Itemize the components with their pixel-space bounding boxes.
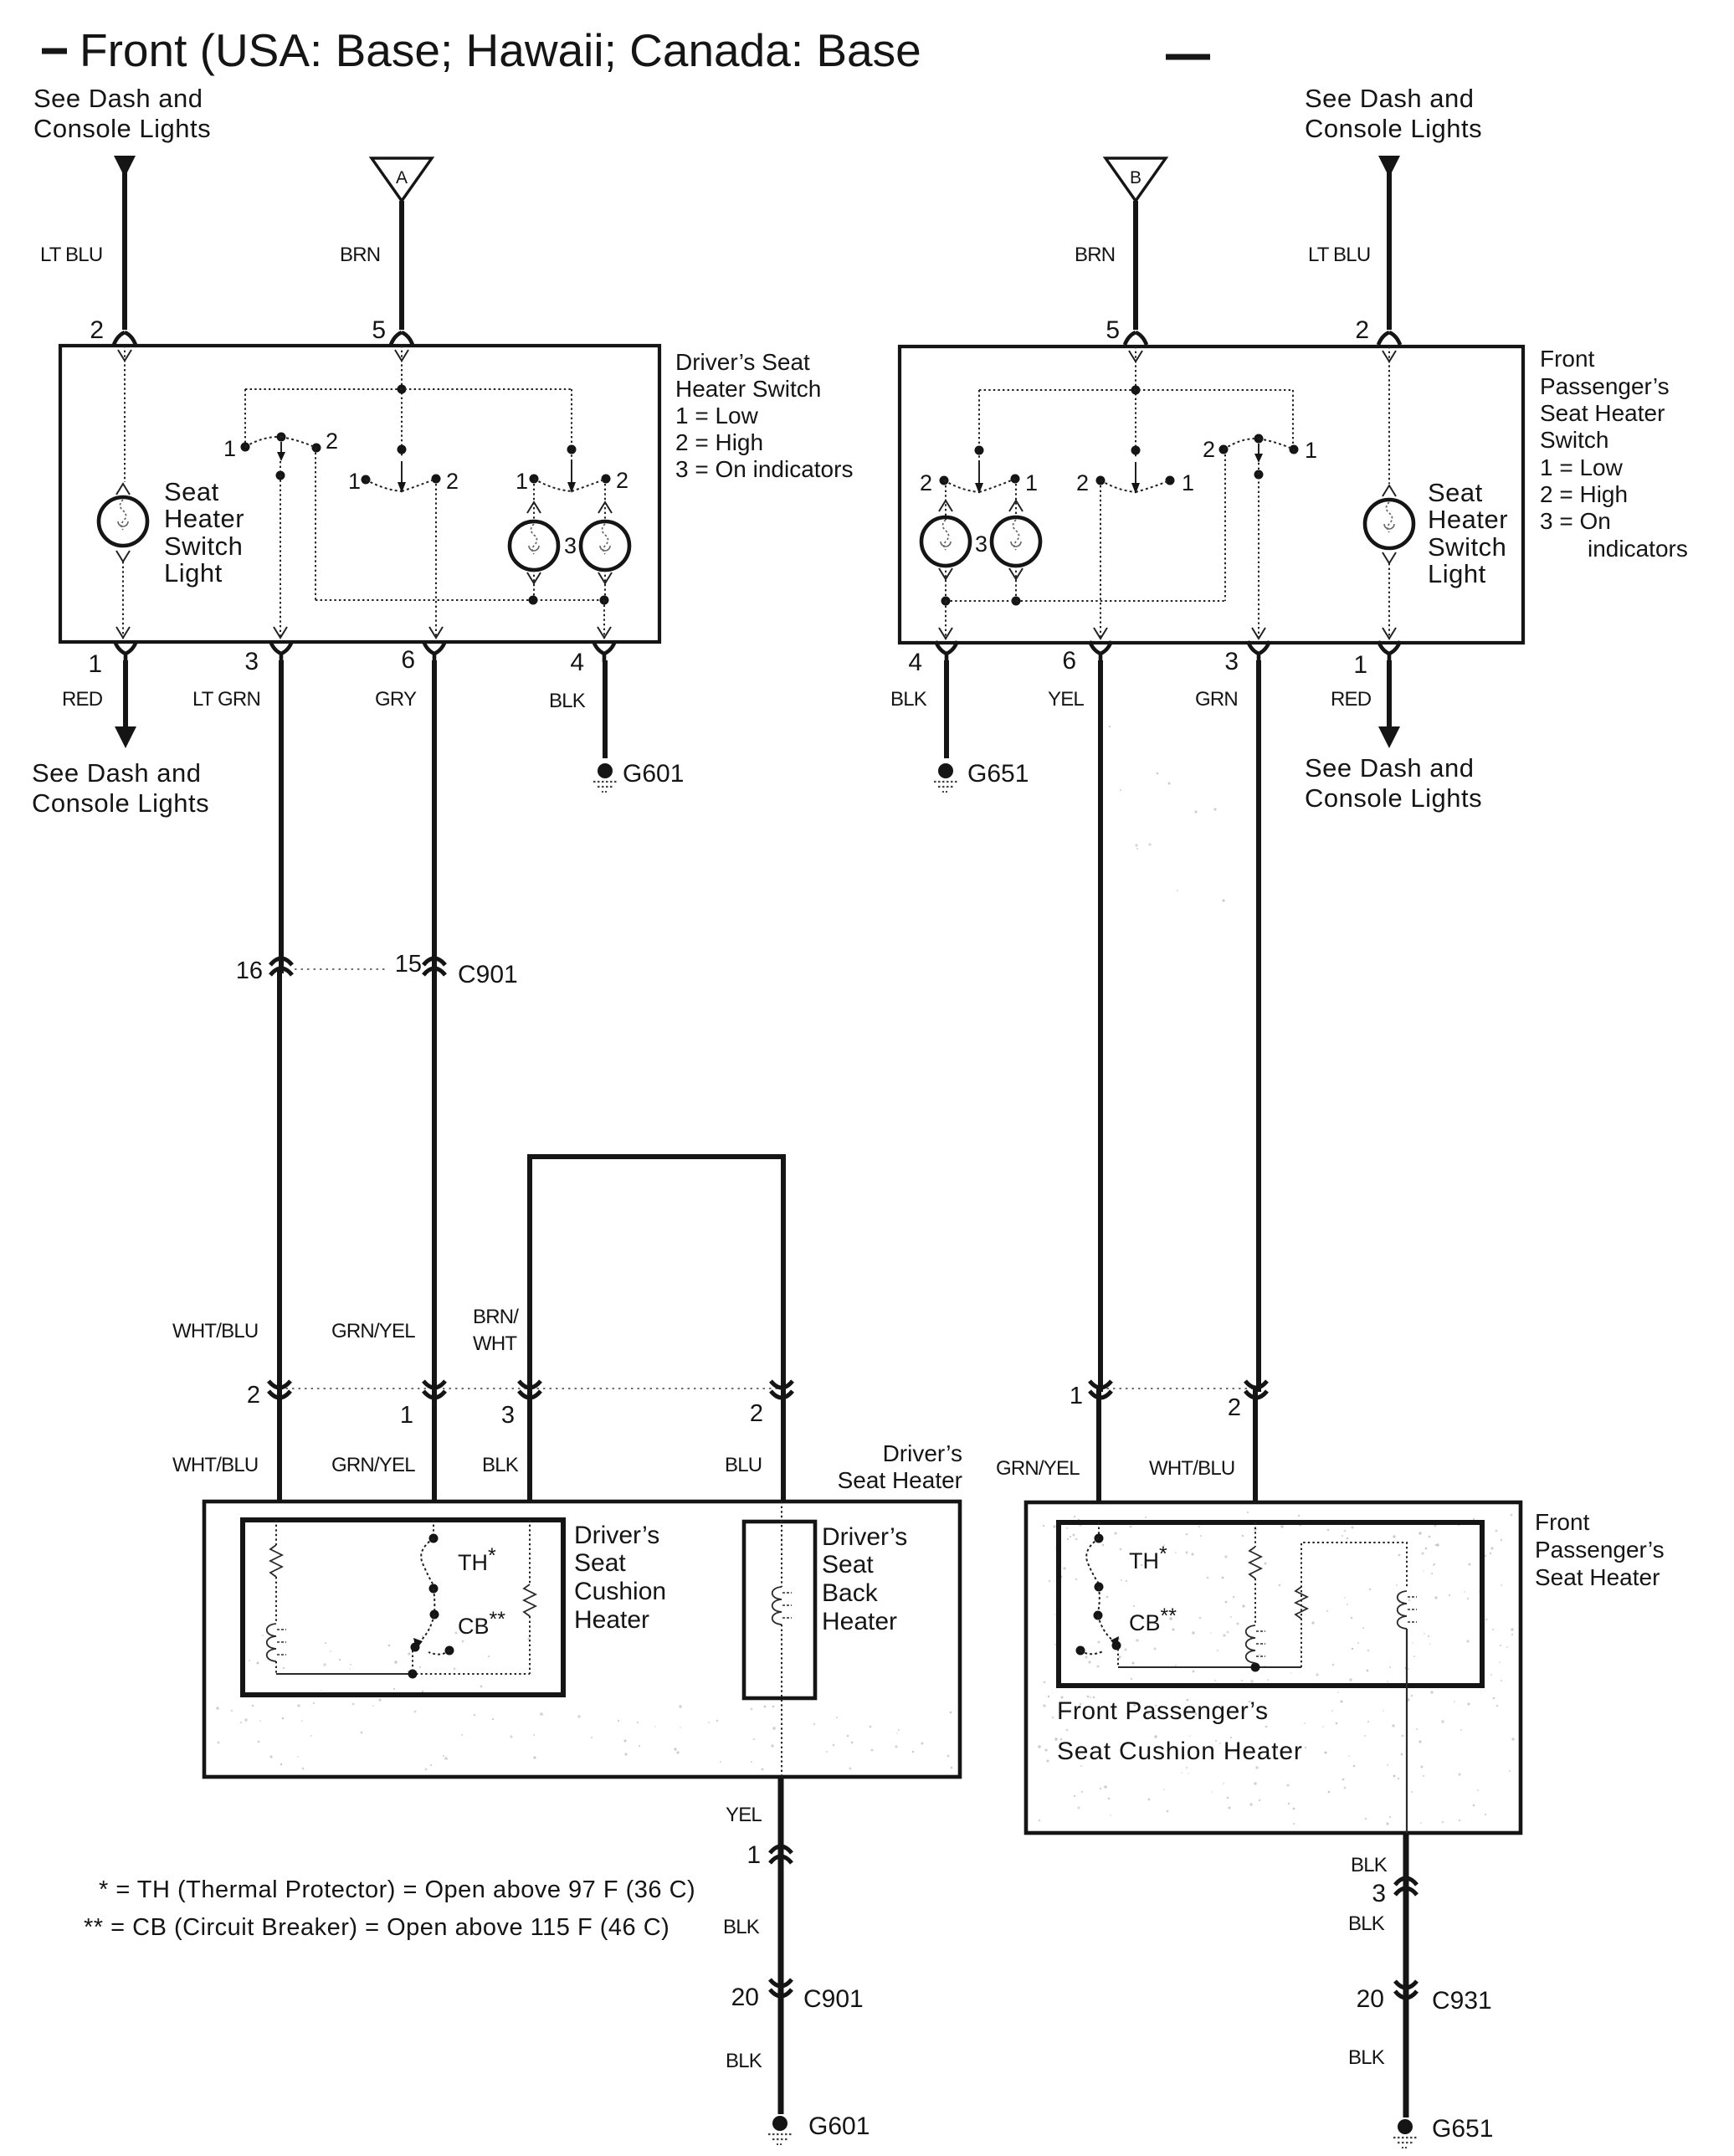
node: junction indicator branch (passenger) bbox=[975, 446, 984, 455]
connector row: dotted line (driver heater) bbox=[280, 1388, 782, 1389]
svg-text:BLK: BLK bbox=[726, 2050, 762, 2072]
wire: dashed WHT/BLU leg bbox=[275, 1520, 277, 1545]
label LT GRN bbox=[192, 688, 260, 711]
thermal protector TH (passenger) bbox=[1086, 1522, 1103, 1612]
svg-text:Heater: Heater bbox=[164, 504, 244, 533]
svg-text:20: 20 bbox=[1357, 1985, 1384, 2013]
svg-text:RED: RED bbox=[1331, 688, 1372, 711]
node: junction on pin5 branch bbox=[398, 445, 407, 454]
connector C901 pin 20 bbox=[731, 1979, 792, 2011]
pin 2 driver switch bbox=[90, 316, 136, 345]
label contact E1 bbox=[1025, 470, 1038, 495]
wire: dashed feed from pin 5 (passenger) bbox=[1129, 346, 1142, 457]
svg-text:6: 6 bbox=[1062, 647, 1076, 675]
pin 2 passenger switch bbox=[1355, 316, 1400, 345]
connector pin 2 (WHT/BLU) bbox=[247, 1381, 290, 1409]
svg-text:3 = On indicators: 3 = On indicators bbox=[675, 456, 853, 482]
wire LT BLU to pin 2 (driver switch) bbox=[122, 172, 127, 330]
svg-text:C901: C901 bbox=[803, 1985, 864, 2013]
wire GRY pin 6 to C901 pin 15 bbox=[432, 660, 437, 1501]
footnote CB bbox=[84, 1914, 669, 1941]
label BRN/WHT bbox=[473, 1306, 519, 1355]
wire: dashed contact C2 to indicator lamp 2 bbox=[598, 484, 612, 521]
switch set C (indicator select) bbox=[530, 461, 611, 493]
wire: dashed to pin 4 bbox=[598, 600, 611, 639]
svg-text:2: 2 bbox=[920, 470, 932, 495]
label LT BLU bbox=[40, 244, 102, 266]
note: See Dash and Console Lights (top left) bbox=[33, 84, 211, 143]
resistor (passenger element 1) bbox=[1249, 1547, 1261, 1578]
svg-text:2 = High: 2 = High bbox=[1540, 481, 1628, 507]
svg-text:Front (USA: Base; Hawaii; Cana: Front (USA: Base; Hawaii; Canada: Base bbox=[80, 24, 921, 76]
label BRN (right) bbox=[1075, 244, 1115, 266]
svg-text:3: 3 bbox=[975, 531, 988, 557]
lamp: seat heater switch light (driver) bbox=[99, 497, 147, 546]
svg-text:3: 3 bbox=[1372, 1880, 1386, 1907]
wire: dotted drop to contact A1 bbox=[244, 389, 246, 444]
label: Seat Heater Switch Light (passenger) bbox=[1428, 478, 1508, 588]
label CB** bbox=[458, 1608, 505, 1639]
wire RED from pin 1 bbox=[123, 660, 128, 728]
pin 4 passenger switch bbox=[908, 641, 957, 676]
svg-text:C931: C931 bbox=[1432, 1987, 1492, 2015]
svg-text:G651: G651 bbox=[967, 760, 1029, 788]
svg-text:1: 1 bbox=[1305, 438, 1317, 463]
wire: dashed contact C1 to indicator lamp 1 bbox=[527, 484, 541, 521]
label BLK (passenger above conn) bbox=[1351, 1854, 1388, 1876]
wire: lamp 2 return (passenger) bbox=[1009, 566, 1023, 601]
connector pin 3 (passenger heater) bbox=[1372, 1878, 1417, 1907]
svg-text:Console Lights: Console Lights bbox=[33, 114, 211, 143]
svg-text:2: 2 bbox=[616, 468, 628, 493]
label YEL bbox=[726, 1804, 762, 1826]
svg-text:GRN/YEL: GRN/YEL bbox=[331, 1454, 415, 1476]
svg-text:GRN/YEL: GRN/YEL bbox=[996, 1457, 1080, 1480]
node: bus junction bbox=[408, 1670, 418, 1679]
label BLK (above C931) bbox=[1348, 1912, 1385, 1935]
ground G601 (heater) bbox=[768, 2116, 792, 2144]
connector pin 1 (GRN/YEL passenger) bbox=[1070, 1381, 1111, 1409]
label RED bbox=[62, 688, 103, 711]
svg-text:indicators: indicators bbox=[1588, 536, 1688, 562]
wire: dotted bus y=466 (passenger) bbox=[979, 389, 1293, 391]
ground G651 (heater) bbox=[1393, 2119, 1417, 2148]
label contact A2 bbox=[326, 429, 338, 454]
wire: dashed contact E1 to lamp 2 bbox=[1009, 484, 1023, 517]
svg-text:LT GRN: LT GRN bbox=[192, 688, 260, 711]
svg-text:Back: Back bbox=[822, 1579, 879, 1607]
pin 5 passenger switch bbox=[1106, 316, 1147, 345]
svg-text:Seat Heater: Seat Heater bbox=[1540, 400, 1665, 426]
label contact G2 bbox=[1076, 470, 1089, 495]
wire: dotted drop to indicator pivot (passenger) bbox=[978, 390, 980, 480]
svg-text:** = CB (Circuit Breaker) = Op: ** = CB (Circuit Breaker) = Open above 1… bbox=[84, 1914, 669, 1941]
label: Front Passenger's Seat Heater bbox=[1535, 1509, 1665, 1590]
label G601 (switch) bbox=[623, 760, 684, 788]
svg-text:2: 2 bbox=[446, 469, 459, 494]
indicator lamp 1 (driver) bbox=[510, 521, 558, 570]
svg-text:Console Lights: Console Lights bbox=[32, 788, 209, 818]
note: See Dash and Console Lights (bottom left) bbox=[32, 758, 209, 818]
wire: dashed lamp feed from pin 2 bbox=[116, 346, 131, 495]
label C901 (bottom) bbox=[803, 1985, 864, 2013]
wire: dashed WHT/BLU leg (passenger) bbox=[1254, 1522, 1256, 1547]
svg-text:RED: RED bbox=[62, 688, 103, 711]
svg-text:GRY: GRY bbox=[375, 688, 417, 711]
resistor (passenger element 2) bbox=[1295, 1587, 1307, 1619]
pin 4 driver switch bbox=[570, 641, 615, 676]
svg-text:1: 1 bbox=[88, 650, 102, 678]
svg-text:Heater: Heater bbox=[822, 1608, 897, 1635]
pin 3 passenger switch bbox=[1224, 641, 1270, 675]
svg-text:Light: Light bbox=[1428, 559, 1486, 588]
switch set G heater feed (passenger) bbox=[1096, 462, 1175, 494]
svg-text:1: 1 bbox=[1182, 470, 1194, 495]
svg-text:Console Lights: Console Lights bbox=[1305, 114, 1482, 143]
heater coil (passenger element 2) bbox=[1398, 1591, 1417, 1629]
wire LT BLU to pin 2 (passenger switch) bbox=[1387, 172, 1392, 330]
connector row: dotted line (passenger heater) bbox=[1100, 1388, 1256, 1389]
wire GRN pin 3 down (passenger) bbox=[1255, 660, 1259, 1502]
svg-text:See Dash and: See Dash and bbox=[1305, 84, 1474, 113]
front passenger's seat heater box bbox=[1026, 1502, 1521, 1833]
svg-text:2: 2 bbox=[1228, 1394, 1241, 1421]
pin 1 passenger switch bbox=[1353, 641, 1400, 679]
svg-text:Front: Front bbox=[1540, 346, 1595, 372]
switch set E indicators (passenger) bbox=[940, 462, 1020, 494]
svg-text:YEL: YEL bbox=[726, 1804, 762, 1826]
svg-text:1: 1 bbox=[746, 1841, 761, 1869]
label 3 (On indicators) bbox=[564, 533, 577, 558]
arrow to dash and console lights (passenger) bbox=[1378, 726, 1400, 748]
label: Seat Heater Switch Light (driver) bbox=[164, 477, 244, 588]
svg-text:1 = Low: 1 = Low bbox=[1540, 454, 1624, 480]
connector C931 pin 20 bbox=[1357, 1981, 1417, 2013]
node: junction pin5 branch (passenger) bbox=[1131, 446, 1141, 455]
wire: dotted drop to indicator pivot bbox=[571, 389, 572, 480]
ground G601 (switch) bbox=[593, 763, 617, 792]
resistor (cushion element 2) bbox=[524, 1584, 536, 1616]
svg-text:Passenger’s: Passenger’s bbox=[1535, 1537, 1665, 1563]
label: Driver's Seat Cushion Heater bbox=[574, 1522, 666, 1634]
label BLK (pin 4) bbox=[549, 690, 586, 712]
node: lamp2 return junction bbox=[600, 596, 609, 605]
label contact G1 bbox=[1182, 470, 1194, 495]
wire: dashed pivot F to pin 3 (passenger) bbox=[1252, 463, 1265, 639]
wire: lamp 1 return bbox=[527, 570, 541, 600]
svg-text:See Dash and: See Dash and bbox=[1305, 753, 1474, 783]
node: lamp1 return junction bbox=[529, 596, 538, 605]
label G651 (switch) bbox=[967, 760, 1029, 788]
wire YEL from heater box bbox=[778, 1777, 784, 2114]
svg-text:20: 20 bbox=[731, 1984, 759, 2011]
svg-text:2: 2 bbox=[1355, 316, 1369, 344]
svg-text:BLK: BLK bbox=[482, 1454, 519, 1476]
node: lamp1 return junction (passenger) bbox=[941, 597, 951, 606]
svg-text:Seat Cushion Heater: Seat Cushion Heater bbox=[1057, 1738, 1303, 1765]
svg-text:Switch: Switch bbox=[1540, 427, 1608, 453]
svg-text:1: 1 bbox=[400, 1402, 413, 1429]
wire: dashed contact A2 to lamp-return bus bbox=[316, 448, 604, 600]
heater coil (passenger element 1) bbox=[1246, 1625, 1265, 1663]
svg-text:BLU: BLU bbox=[725, 1454, 762, 1476]
svg-text:4: 4 bbox=[570, 649, 584, 676]
node: bus junction (passenger) bbox=[1251, 1663, 1260, 1672]
svg-text:4: 4 bbox=[908, 649, 922, 676]
pin 6 passenger switch bbox=[1062, 641, 1111, 675]
svg-text:1: 1 bbox=[223, 436, 236, 461]
svg-text:1 = Low: 1 = Low bbox=[675, 403, 759, 429]
svg-text:BLK: BLK bbox=[549, 690, 586, 712]
svg-text:Front: Front bbox=[1535, 1509, 1590, 1535]
svg-text:2 = High: 2 = High bbox=[675, 429, 763, 455]
label contact A1 bbox=[223, 436, 236, 461]
connector triangle B bbox=[1106, 158, 1166, 201]
driver's seat heater switch box bbox=[60, 346, 659, 642]
svg-text:Cushion: Cushion bbox=[574, 1578, 666, 1605]
node: junction pin5/bus bbox=[398, 385, 407, 394]
svg-text:2: 2 bbox=[247, 1382, 260, 1409]
label: Driver's Seat Back Heater bbox=[822, 1523, 907, 1635]
node: junction pin5 bus (passenger) bbox=[1131, 386, 1141, 395]
svg-text:* = TH (Thermal Protector) = O: * = TH (Thermal Protector) = Open above … bbox=[99, 1876, 695, 1903]
driver's seat cushion heater box bbox=[243, 1520, 563, 1695]
svg-text:BRN: BRN bbox=[1075, 244, 1115, 266]
svg-text:2: 2 bbox=[1076, 470, 1089, 495]
wire: dashed feed from pin 5 down to switch common bbox=[395, 346, 408, 456]
wire BLK into heater bbox=[527, 1381, 532, 1501]
svg-text:Console Lights: Console Lights bbox=[1305, 783, 1482, 813]
svg-text:2: 2 bbox=[1203, 437, 1215, 462]
wire: dotted connector line C901 bbox=[295, 968, 387, 970]
node: lamp2 return junction (passenger) bbox=[1012, 597, 1021, 606]
ground G651 (switch) bbox=[934, 763, 957, 792]
wire: dotted drop to contact D1 bbox=[1292, 390, 1294, 445]
connector C901 pin 16 bbox=[236, 957, 292, 984]
svg-text:C901: C901 bbox=[458, 961, 518, 988]
svg-text:GRN/YEL: GRN/YEL bbox=[331, 1320, 415, 1342]
thermal protector TH (driver) bbox=[421, 1520, 438, 1613]
wire BLK from heater box (passenger) bbox=[1403, 1833, 1409, 2117]
svg-text:2: 2 bbox=[326, 429, 338, 454]
label WHT/BLU (above connector) bbox=[172, 1320, 258, 1342]
front passenger's seat heater switch box bbox=[900, 346, 1523, 643]
svg-text:1: 1 bbox=[1353, 651, 1367, 679]
svg-text:Driver’s: Driver’s bbox=[883, 1440, 962, 1466]
connector triangle A bbox=[372, 158, 432, 201]
node: below pivot F bbox=[1254, 470, 1264, 480]
wire: dotted parallel element loop bbox=[1301, 1543, 1407, 1667]
svg-text:BLK: BLK bbox=[1348, 2046, 1385, 2069]
svg-text:Seat: Seat bbox=[822, 1551, 874, 1578]
label GRN/YEL (below connector) bbox=[331, 1454, 415, 1476]
svg-text:WHT/BLU: WHT/BLU bbox=[1149, 1457, 1234, 1480]
front passenger's seat cushion heater box bbox=[1059, 1522, 1482, 1686]
label WHT/BLU (passenger) bbox=[1149, 1457, 1234, 1480]
svg-text:YEL: YEL bbox=[1048, 688, 1084, 711]
svg-text:Seat: Seat bbox=[164, 477, 219, 506]
svg-text:1: 1 bbox=[1070, 1383, 1083, 1409]
svg-text:Switch: Switch bbox=[164, 531, 243, 561]
label CB** (passenger) bbox=[1129, 1604, 1177, 1635]
svg-text:Driver’s Seat: Driver’s Seat bbox=[675, 349, 810, 375]
svg-text:5: 5 bbox=[372, 316, 386, 344]
label BLK (cushion) bbox=[482, 1454, 519, 1476]
svg-text:BLK: BLK bbox=[1348, 1912, 1385, 1935]
arrow from Dash and Console Lights (right) bbox=[1378, 156, 1400, 177]
svg-text:GRN: GRN bbox=[1195, 688, 1238, 711]
svg-text:Heater: Heater bbox=[1428, 505, 1508, 534]
label contact C1 bbox=[516, 469, 528, 494]
svg-text:Driver’s: Driver’s bbox=[822, 1523, 907, 1551]
wire: dashed lamp return to pin 1 bbox=[116, 551, 130, 639]
label BRN bbox=[340, 244, 380, 266]
label TH* bbox=[458, 1544, 496, 1575]
heater coil (seat back) bbox=[772, 1587, 792, 1625]
heater coil (cushion element 1) bbox=[267, 1624, 286, 1661]
svg-text:5: 5 bbox=[1106, 316, 1120, 344]
svg-text:2: 2 bbox=[750, 1400, 763, 1427]
label BLK (below C931) bbox=[1348, 2046, 1385, 2069]
wire: dashed back heater to box exit bbox=[781, 1625, 782, 1777]
wire: bottom bus (passenger cushion) bbox=[1118, 1666, 1301, 1668]
switch set A (mode select) bbox=[241, 433, 321, 462]
label BLK (above C901) bbox=[723, 1916, 760, 1938]
svg-text:3: 3 bbox=[501, 1402, 515, 1429]
circuit breaker CB (driver) bbox=[411, 1610, 454, 1675]
wire: dashed to heater coil bbox=[275, 1577, 277, 1624]
wire: dotted lamp return bus (passenger) bbox=[946, 600, 1225, 602]
svg-text:G651: G651 bbox=[1432, 2115, 1493, 2143]
indicator lamp 2 (passenger) bbox=[992, 517, 1040, 566]
wire: dashed contact B2 to pin 6 bbox=[429, 484, 443, 639]
wire: dashed pivot A to pin 3 bbox=[274, 461, 287, 639]
svg-text:1: 1 bbox=[1025, 470, 1038, 495]
driver's seat heater box bbox=[204, 1501, 960, 1777]
svg-text:G601: G601 bbox=[808, 2112, 870, 2140]
wire: dashed to heater coil (passenger) bbox=[1254, 1578, 1256, 1625]
svg-text:BRN/: BRN/ bbox=[473, 1306, 519, 1328]
wire BLK pin 4 to ground bbox=[603, 660, 608, 758]
label GRY bbox=[375, 688, 417, 711]
label contact F2 bbox=[1203, 437, 1215, 462]
wire RED from pin 1 (passenger) bbox=[1387, 660, 1392, 728]
label 3 (passenger indicators) bbox=[975, 531, 988, 557]
label: Driver's Seat Heater Switch legend bbox=[675, 349, 853, 482]
wire: dashed contact F2 drop bbox=[1224, 454, 1226, 601]
svg-text:Front Passenger’s: Front Passenger’s bbox=[1057, 1697, 1269, 1725]
svg-text:BLK: BLK bbox=[890, 688, 927, 711]
svg-text:Driver’s: Driver’s bbox=[574, 1522, 659, 1549]
svg-text:2: 2 bbox=[90, 316, 104, 344]
indicator lamp 2 (driver) bbox=[581, 521, 629, 570]
connector C901 pin 15 bbox=[395, 951, 445, 978]
arrow from Dash and Console Lights (left) bbox=[114, 156, 136, 177]
svg-text:Heater Switch: Heater Switch bbox=[675, 376, 821, 402]
label: Front Passenger's Seat Cushion Heater bbox=[1057, 1697, 1303, 1765]
svg-text:A: A bbox=[396, 168, 408, 187]
label contact C2 bbox=[616, 468, 628, 493]
wire: dashed lamp return to pin 1 (passenger) bbox=[1383, 552, 1396, 639]
arrow to dash and console lights (driver) bbox=[115, 726, 136, 748]
wire LT GRN pin 3 to C901 pin 16 bbox=[280, 660, 281, 1501]
node: below pivot A bbox=[276, 471, 285, 480]
pin 1 driver switch bbox=[88, 641, 136, 678]
driver's seat back heater box bbox=[744, 1522, 815, 1698]
label GRN/YEL (above connector) bbox=[331, 1320, 415, 1342]
svg-text:B: B bbox=[1130, 168, 1141, 187]
wire: dashed lamp feed from pin 2 (passenger) bbox=[1383, 346, 1396, 496]
footnote TH bbox=[99, 1876, 695, 1903]
svg-text:3: 3 bbox=[244, 648, 259, 675]
lamp: seat heater switch light (passenger) bbox=[1365, 500, 1413, 548]
connector pin 2 (WHT/BLU passenger) bbox=[1228, 1381, 1267, 1421]
label contact B2 bbox=[446, 469, 459, 494]
svg-text:Heater: Heater bbox=[574, 1606, 649, 1634]
wire: element 2 to box exit bbox=[1406, 1629, 1408, 1833]
svg-text:6: 6 bbox=[401, 646, 415, 674]
label C931 bbox=[1432, 1987, 1492, 2015]
label TH* (passenger) bbox=[1129, 1543, 1167, 1573]
wire BRN to pin 5 (driver switch) bbox=[399, 201, 404, 330]
connector pin 2 (BLU) bbox=[750, 1381, 793, 1427]
label GRN/YEL (passenger) bbox=[996, 1457, 1080, 1480]
svg-text:1: 1 bbox=[516, 469, 528, 494]
resistor (cushion element 1) bbox=[270, 1545, 282, 1577]
svg-text:G601: G601 bbox=[623, 760, 684, 788]
label contact F1 bbox=[1305, 438, 1317, 463]
wire BLU into heater bbox=[781, 1381, 786, 1501]
wire: dashed to pin 4 (passenger) bbox=[939, 601, 952, 639]
label G651 (heater) bbox=[1432, 2115, 1493, 2143]
connector pin 1 (seat heater) bbox=[746, 1841, 792, 1869]
svg-text:Switch: Switch bbox=[1428, 532, 1506, 562]
label BLK (passenger pin 4) bbox=[890, 688, 927, 711]
pin 5 driver switch bbox=[372, 316, 413, 345]
wire: lamp 1 return (passenger) bbox=[939, 566, 952, 601]
svg-text:WHT: WHT bbox=[473, 1332, 517, 1355]
title: Front (USA: Base; Hawaii; Canada: Base bbox=[42, 24, 1210, 76]
note: See Dash and Console Lights (right mid) bbox=[1305, 753, 1482, 813]
wire BRN to pin 5 (passenger switch) bbox=[1133, 201, 1138, 330]
wire BRN/WHT loop bbox=[530, 1157, 783, 1381]
svg-text:Seat: Seat bbox=[1428, 478, 1483, 507]
label contact E2 bbox=[920, 470, 932, 495]
svg-text:WHT/BLU: WHT/BLU bbox=[172, 1454, 258, 1476]
connector pin 1 (GRN/YEL) bbox=[400, 1381, 445, 1429]
svg-text:See Dash and: See Dash and bbox=[33, 84, 203, 113]
svg-text:BRN: BRN bbox=[340, 244, 380, 266]
svg-text:BLK: BLK bbox=[1351, 1854, 1388, 1876]
circuit breaker CB (passenger) bbox=[1076, 1611, 1121, 1668]
svg-text:Seat: Seat bbox=[574, 1549, 626, 1577]
label BLU bbox=[725, 1454, 762, 1476]
svg-text:3 = On: 3 = On bbox=[1540, 508, 1611, 534]
svg-text:3: 3 bbox=[1224, 648, 1239, 675]
svg-text:BLK: BLK bbox=[723, 1916, 760, 1938]
svg-text:Light: Light bbox=[164, 558, 223, 588]
label C901 (mid) bbox=[458, 961, 518, 988]
pin 6 driver switch bbox=[401, 641, 445, 674]
wire: dashed contact G2 to pin 6 bbox=[1094, 485, 1107, 639]
label YEL (passenger) bbox=[1048, 688, 1084, 711]
svg-text:Seat Heater: Seat Heater bbox=[1535, 1564, 1660, 1590]
svg-text:WHT/BLU: WHT/BLU bbox=[172, 1320, 258, 1342]
label contact B1 bbox=[348, 469, 361, 494]
wire: bottom bus (cushion) bbox=[276, 1673, 530, 1675]
note: See Dash and Console Lights (top right) bbox=[1305, 84, 1482, 143]
wire: dashed BLU leg through back heater bbox=[781, 1501, 782, 1587]
